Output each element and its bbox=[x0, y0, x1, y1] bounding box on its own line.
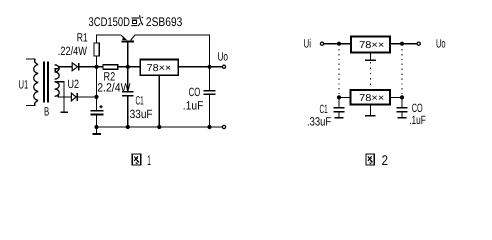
node bottom C1 bbox=[126, 125, 130, 129]
wire top rail right bbox=[135, 35, 210, 67]
capacitor C0 fig2 bbox=[397, 97, 408, 117]
ground bottom rail bbox=[93, 127, 102, 134]
svg-text:U2: U2 bbox=[68, 77, 80, 91]
capacitor C0 bbox=[204, 91, 216, 95]
diode D1 top bbox=[72, 63, 79, 71]
svg-text:U1: U1 bbox=[19, 78, 29, 92]
terminal output plus bbox=[222, 65, 225, 68]
transformer core bbox=[43, 62, 49, 103]
terminal output minus bbox=[222, 125, 225, 128]
capacitor electrolytic filter bbox=[91, 105, 104, 114]
svg-text:.33uF: .33uF bbox=[307, 114, 331, 128]
title label 3CD150D或 2SB693 bbox=[89, 15, 183, 29]
svg-text:.1uF: .1uF bbox=[409, 113, 426, 127]
wire Ui to box A bbox=[324, 43, 351, 45]
wire secondary bottom lead to diode D2 bbox=[58, 94, 72, 97]
svg-text:78××: 78×× bbox=[147, 63, 172, 74]
primary top lead bbox=[26, 59, 35, 62]
secondary upper winding bbox=[55, 65, 60, 79]
capacitor C1 bbox=[122, 92, 133, 96]
node D2 cathode bbox=[94, 95, 98, 99]
svg-text:Uo: Uo bbox=[436, 36, 446, 50]
resistor R1 bbox=[94, 43, 99, 56]
node bottom regulator bbox=[157, 125, 161, 129]
wire regulator ground pin bbox=[158, 75, 160, 127]
svg-text:Uo: Uo bbox=[218, 49, 229, 63]
transistor Q1 bbox=[121, 35, 135, 67]
node output top bbox=[207, 65, 211, 69]
caption 图 1 bbox=[132, 152, 151, 168]
wire regulator out to output bbox=[179, 66, 222, 68]
wire box A to Uo bbox=[390, 43, 417, 45]
wire R1 bottom to mid rail node bbox=[96, 56, 98, 67]
wire bottom rail bbox=[97, 126, 222, 128]
diode D2 bottom bbox=[71, 93, 77, 101]
svg-text:3CD150D: 3CD150D bbox=[89, 15, 131, 29]
wire dotted center bbox=[370, 62, 372, 86]
svg-text:2: 2 bbox=[382, 152, 389, 168]
svg-text:1: 1 bbox=[147, 152, 151, 168]
transformer U1 bbox=[26, 59, 59, 106]
node base junction bbox=[126, 65, 130, 69]
caption 图 2 bbox=[366, 152, 388, 168]
wire D1 cathode to mid node bbox=[79, 66, 97, 68]
svg-text:78××: 78×× bbox=[359, 93, 384, 104]
svg-text:2SB693: 2SB693 bbox=[146, 15, 183, 29]
regulator box A 78xx bbox=[351, 37, 390, 53]
capacitor C1 fig2 bbox=[333, 97, 344, 117]
wire dotted right bbox=[401, 49, 403, 94]
wire C1 to bottom rail bbox=[127, 96, 129, 127]
wire cap to bottom rail bbox=[96, 115, 98, 127]
svg-text:Ui: Ui bbox=[304, 36, 312, 50]
regulator U3 78xx box bbox=[140, 60, 178, 76]
node R1 bottom bbox=[94, 65, 98, 69]
wire center tap down bbox=[55, 82, 64, 112]
svg-text:B: B bbox=[44, 104, 49, 118]
wire top rail left bbox=[97, 35, 122, 43]
wire C1 vertical bbox=[127, 67, 129, 92]
resistor R2 bbox=[103, 65, 118, 70]
wire secondary top lead to diode D1 bbox=[55, 67, 72, 72]
wire C0 vertical bbox=[209, 67, 211, 90]
svg-text:R1: R1 bbox=[77, 30, 88, 44]
wire vertical filter line bbox=[96, 67, 98, 111]
primary bottom lead bbox=[35, 100, 38, 103]
wire D2 cathode to vertical bbox=[77, 96, 96, 98]
svg-text:.1uF: .1uF bbox=[183, 99, 204, 113]
svg-text:.33uF: .33uF bbox=[127, 107, 153, 121]
svg-text:.22/4W: .22/4W bbox=[58, 44, 88, 58]
node fig2 bottom left bbox=[337, 95, 341, 99]
wire dotted left bbox=[338, 49, 340, 94]
ground box A bbox=[365, 53, 376, 61]
wire C0 to bottom rail bbox=[209, 94, 211, 127]
wire R2 to regulator bbox=[118, 66, 141, 68]
node fig2 top right bbox=[400, 42, 404, 46]
ground bar center tap bbox=[60, 111, 68, 113]
svg-text:C1: C1 bbox=[136, 94, 144, 108]
svg-text:CO: CO bbox=[189, 85, 201, 99]
secondary lower winding bbox=[55, 82, 60, 96]
node bottom output bbox=[207, 125, 211, 129]
ground box B bbox=[365, 105, 376, 116]
node fig2 bottom right bbox=[400, 95, 404, 99]
wire box B right lead bbox=[390, 96, 402, 98]
wire mid rail node to R2 bbox=[97, 66, 104, 68]
primary winding bbox=[34, 65, 39, 101]
svg-text:78××: 78×× bbox=[359, 40, 384, 51]
regulator box B 78xx bbox=[351, 90, 391, 105]
terminal Ui bbox=[320, 42, 323, 45]
node bottom left bbox=[94, 125, 98, 129]
terminal Uo fig2 bbox=[417, 42, 420, 45]
node fig2 top left bbox=[337, 42, 341, 46]
wire box B left lead bbox=[339, 96, 351, 98]
